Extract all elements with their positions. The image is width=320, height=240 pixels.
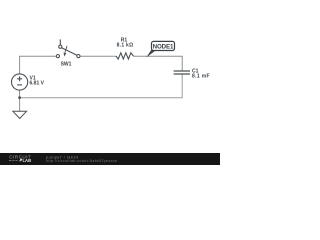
node NODE1 flag box bbox=[152, 41, 175, 50]
CircuitLab logo waveform + LAB bbox=[9, 160, 18, 162]
SW1 right terminal bbox=[77, 55, 80, 58]
SW1 throw stub bbox=[59, 39, 61, 45]
wire: R1 right lead to top-right corner down to C1 top plate bbox=[134, 56, 183, 71]
node NODE1 flag tail bbox=[146, 49, 155, 58]
ground bbox=[13, 111, 27, 118]
svg-text:NODE1: NODE1 bbox=[153, 44, 174, 51]
footer bar bbox=[0, 153, 220, 165]
switch SW1 bbox=[56, 39, 80, 57]
node junction dot bbox=[18, 96, 21, 99]
svg-text:SW1: SW1 bbox=[61, 61, 72, 67]
svg-text:LAB: LAB bbox=[23, 158, 32, 163]
wire: V1 bottom to junction to ground stub bbox=[19, 90, 21, 111]
SW1 left terminal bbox=[56, 55, 59, 58]
wire: switch right terminal to R1 left lead bbox=[80, 55, 116, 57]
SW1 throw circle bbox=[59, 45, 62, 48]
SW1 actuator arrow bbox=[65, 46, 67, 53]
capacitor C1 bbox=[174, 71, 190, 74]
wire: V1 top to switch left terminal bbox=[20, 56, 57, 74]
voltage source V1 bbox=[12, 74, 28, 90]
SW1 arm bbox=[62, 48, 77, 55]
resistor R1 bbox=[116, 53, 134, 59]
svg-text:http://circuitlab.com/c/5abk52: http://circuitlab.com/c/5abk52yeaxcn bbox=[46, 159, 118, 163]
svg-text:8.1 kΩ: 8.1 kΩ bbox=[117, 43, 134, 49]
wire: C1 bottom plate down and bottom wire to junction bbox=[20, 74, 183, 98]
svg-text:6.81 V: 6.81 V bbox=[30, 81, 45, 87]
svg-text:8.1 mF: 8.1 mF bbox=[192, 73, 210, 79]
